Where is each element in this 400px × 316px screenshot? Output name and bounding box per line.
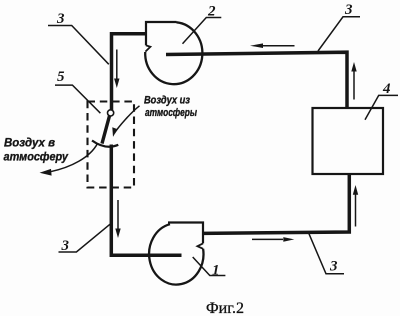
svg-text:атмосферу: атмосферу [4, 150, 70, 164]
flow arrow left (top pipe) [250, 43, 295, 48]
wire: left pipe lower part to bottom corner then fan1 suction [111, 145, 181, 256]
leader line label 1 [193, 257, 226, 276]
valve blade [102, 116, 110, 144]
flow arrow up (right pipe, lower) [353, 185, 358, 227]
fan 2 circle body [145, 22, 202, 84]
fan 1 (bottom blower) scroll tab [168, 223, 203, 244]
curved arrow: air out to atmosphere [40, 144, 98, 176]
flow arrow right (bottom pipe) [252, 237, 294, 242]
leader line label 3 bottom-left [59, 224, 111, 252]
leader line label 4 [365, 95, 398, 119]
svg-text:Фиг.2: Фиг.2 [206, 300, 244, 316]
flow arrow down (left pipe, lower) [115, 200, 120, 238]
leader line label 2 [183, 18, 222, 44]
svg-text:3: 3 [344, 2, 353, 18]
leader line label 3 top-left [48, 26, 109, 65]
curved arrow: air in from atmosphere [112, 106, 139, 137]
leader line label 5 [55, 85, 100, 113]
box 4 (heat exchanger) [313, 108, 384, 174]
fan 2 (top blower) scroll tab [146, 22, 177, 45]
fan 2 scroll notch [145, 45, 150, 51]
svg-text:5: 5 [57, 69, 65, 85]
svg-text:атмосферы: атмосферы [145, 107, 197, 119]
svg-text:2: 2 [207, 4, 216, 20]
svg-text:Воздух из: Воздух из [144, 95, 190, 107]
leader line label 3 top-right [318, 17, 360, 51]
valve seat arc [92, 141, 118, 147]
wire: fan2 suction line from circle center to top-right corner, down to box 4 [166, 52, 347, 108]
flow arrow down (left pipe, upper) [114, 50, 119, 89]
fan 1 scroll notch [197, 243, 203, 248]
flow arrow up (right pipe, upper) [351, 62, 356, 100]
wire: fan2 discharge to left pipe top corner [112, 34, 147, 110]
svg-text:4: 4 [382, 81, 391, 97]
svg-text:3: 3 [56, 11, 65, 27]
fan 1 circle body [149, 224, 203, 284]
dashed box 5 [88, 102, 135, 188]
svg-text:3: 3 [329, 259, 338, 275]
svg-text:1: 1 [212, 263, 220, 279]
leader line label 3 bottom-right [309, 234, 344, 274]
svg-text:Воздух в: Воздух в [4, 136, 55, 150]
valve pivot circle [108, 110, 114, 116]
wire: fan1 discharge to bottom-right corner, up to box 4 bottom [203, 174, 349, 233]
svg-text:3: 3 [61, 238, 70, 254]
